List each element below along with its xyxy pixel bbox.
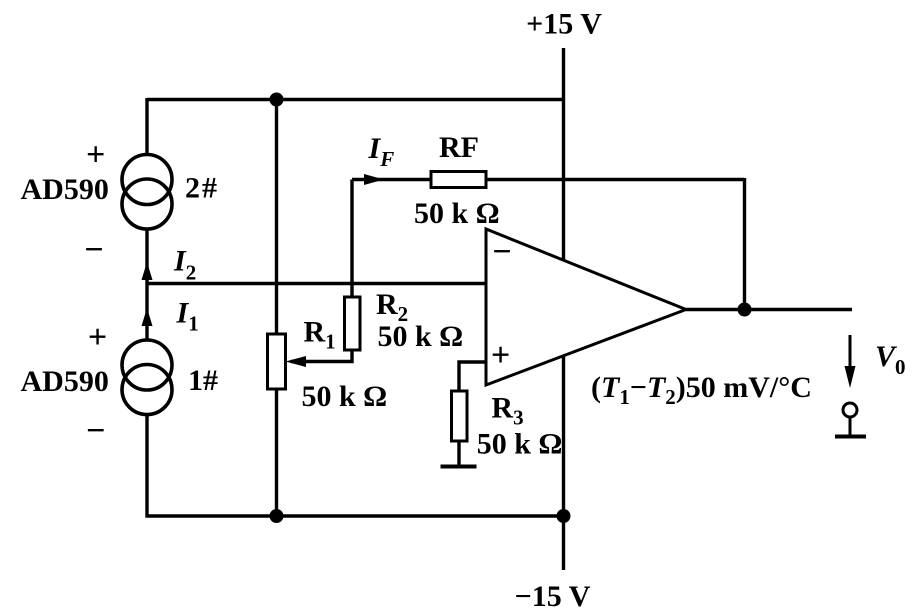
op-amp U1: [486, 229, 686, 385]
wire +15V/-15V supply vertical line: [562, 48, 565, 570]
svg-text:−15 V: −15 V: [515, 580, 591, 613]
svg-text:+15 V: +15 V: [526, 8, 602, 41]
svg-text:+: +: [491, 337, 510, 374]
node dot bottom rail / -15V line: [557, 509, 571, 523]
arrow I1 current direction: [142, 308, 153, 326]
wire non-inverting input lead: [459, 362, 486, 391]
svg-text:1#: 1#: [188, 364, 218, 397]
arrow I2 current direction: [142, 262, 153, 280]
arrow R1 wiper: [286, 356, 307, 367]
ground bar below R3: [441, 465, 477, 469]
wire R2 bottom to R1 wiper: [291, 349, 352, 362]
svg-text:−: −: [86, 413, 105, 450]
svg-text:50 k Ω: 50 k Ω: [414, 197, 500, 230]
wire 2# top lead: [145, 98, 148, 156]
resistor R2: [345, 297, 361, 350]
svg-text:−: −: [492, 233, 511, 270]
svg-text:RF: RF: [439, 131, 479, 164]
node dot top rail / R1 column: [270, 93, 284, 107]
resistor R3: [452, 391, 468, 441]
svg-text:AD590: AD590: [21, 365, 109, 398]
wire output line: [686, 308, 852, 311]
wire top positive rail: [147, 98, 564, 101]
current source AD590 2#: [122, 155, 172, 230]
resistor R1: [268, 334, 286, 389]
wire inverting input line: [147, 282, 486, 285]
wire R1 column: [275, 100, 278, 517]
svg-text:50 k Ω: 50 k Ω: [378, 320, 464, 353]
svg-text:−: −: [84, 231, 103, 268]
resistor RF: [431, 172, 486, 188]
wire 1# bottom lead: [145, 414, 148, 518]
terminal V0 output: [835, 403, 866, 437]
wire bottom negative rail: [146, 514, 564, 517]
svg-text:+: +: [86, 137, 105, 174]
wire 1# top lead: [145, 284, 148, 342]
node dot output / feedback junction: [738, 303, 752, 317]
wire R3 bottom lead: [457, 440, 460, 466]
svg-text:2#: 2#: [185, 172, 219, 205]
node dot bottom rail / R1 column: [270, 509, 284, 523]
current source AD590 1#: [122, 340, 172, 415]
wire feedback right vertical: [743, 178, 746, 310]
arrow V0 direction: [845, 335, 856, 388]
wire 2# bottom lead: [145, 228, 148, 284]
arrow IF current direction: [364, 174, 384, 185]
wire feedback line: [352, 178, 745, 181]
svg-text:50 k Ω: 50 k Ω: [477, 428, 563, 461]
svg-text:50 k Ω: 50 k Ω: [302, 380, 388, 413]
svg-text:+: +: [88, 319, 107, 356]
wire R2 column from feedback corner to R2: [350, 180, 353, 299]
svg-text:AD590: AD590: [21, 173, 109, 206]
